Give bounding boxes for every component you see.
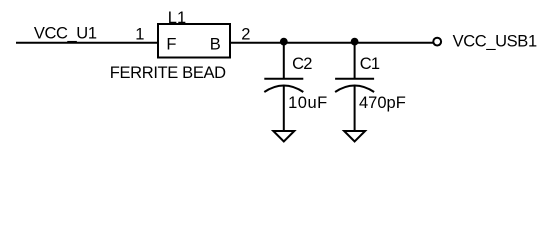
svg-text:VCC_U1: VCC_U1 xyxy=(34,25,97,43)
open pin circle at VCC_USB1 xyxy=(433,38,441,46)
svg-text:470pF: 470pF xyxy=(359,94,406,112)
capacitor C2 bottom curved plate xyxy=(264,86,303,93)
svg-text:10uF: 10uF xyxy=(288,94,328,112)
svg-text:C2: C2 xyxy=(292,55,312,73)
capacitor C2 top plate xyxy=(264,78,303,80)
svg-text:B: B xyxy=(210,36,221,54)
svg-text:L1: L1 xyxy=(168,9,186,27)
wire from VCC_U1 to L1 pin 1 xyxy=(16,42,158,44)
capacitor C1 bottom curved plate xyxy=(335,86,374,93)
junction node at C2 xyxy=(280,38,288,46)
svg-text:F: F xyxy=(166,36,176,54)
ground symbol under C1 xyxy=(344,131,365,142)
svg-text:VCC_USB1: VCC_USB1 xyxy=(453,32,537,50)
junction node at C1 xyxy=(351,38,359,46)
ferrite bead L1 body xyxy=(158,24,230,58)
svg-text:1: 1 xyxy=(135,26,144,44)
capacitor C1 top plate xyxy=(335,78,374,80)
svg-text:2: 2 xyxy=(241,26,250,44)
wire from L1 pin 2 to VCC_USB1 xyxy=(230,42,433,44)
ground symbol under C2 xyxy=(273,131,294,142)
capacitor C2 bottom lead wire xyxy=(283,87,285,132)
capacitor C1 top lead wire xyxy=(354,42,356,79)
capacitor C1 bottom lead wire xyxy=(354,87,356,132)
capacitor C2 top lead wire xyxy=(283,42,285,79)
svg-text:C1: C1 xyxy=(360,55,380,73)
svg-text:FERRITE BEAD: FERRITE BEAD xyxy=(110,64,226,82)
